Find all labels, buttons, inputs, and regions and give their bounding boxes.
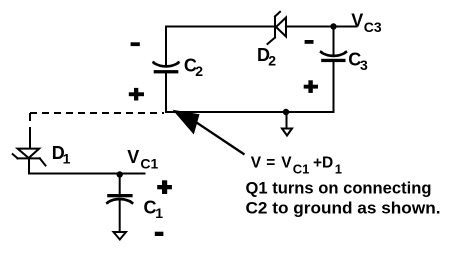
svg-text:3: 3 [360, 57, 368, 73]
svg-text:1: 1 [63, 151, 71, 167]
capacitor C3 [320, 51, 347, 62]
wire right vertical above C3 [333, 27, 335, 56]
ground symbol below bottom wire [282, 129, 292, 136]
svg-text:2: 2 [195, 63, 203, 79]
plus sign C3 [304, 80, 318, 93]
wire horizontal to Vc1 node [29, 173, 145, 175]
node junction dot Vc1 [117, 171, 123, 177]
wire top horizontal right of D2 [286, 26, 334, 28]
diode D1 (zener) [13, 149, 46, 166]
svg-text:V: V [351, 11, 363, 31]
dashed wire horizontal [30, 112, 164, 114]
annotation arrow shaft [197, 123, 245, 155]
wire C1 bottom to ground [119, 200, 121, 232]
svg-text:+D: +D [313, 155, 333, 172]
wire right vertical below C3 [333, 62, 335, 112]
wire top horizontal left of D2 [166, 26, 274, 28]
wire left vertical above C2 [165, 27, 167, 66]
plus sign C2 [129, 88, 144, 101]
dashed wire vertical corner [29, 113, 31, 121]
diode D2 (zener) [268, 12, 287, 44]
annotation arrow head [173, 110, 200, 135]
wire bottom horizontal [166, 111, 334, 113]
svg-text:C2 to ground as shown.: C2 to ground as shown. [246, 199, 441, 217]
ground symbol below C1 [114, 232, 127, 240]
capacitor C1 [106, 194, 133, 204]
svg-text:C1: C1 [140, 155, 158, 171]
minus sign C1 [155, 232, 164, 236]
svg-text:V: V [127, 147, 139, 167]
svg-text:1: 1 [335, 161, 342, 176]
wire D1 anode from dashed corner [29, 128, 31, 148]
node junction dot Vc3 [330, 23, 336, 29]
svg-text:C1: C1 [293, 162, 310, 177]
svg-text:=: = [266, 155, 275, 172]
wire C1 top [119, 174, 121, 195]
svg-text:2: 2 [268, 52, 276, 68]
wire ground stub below bottom wire [286, 112, 288, 129]
svg-text:1: 1 [155, 205, 163, 221]
minus sign C3 [305, 40, 314, 44]
svg-text:C3: C3 [364, 19, 382, 35]
wire D1 cathode down [28, 159, 30, 174]
wire left vertical below C2 [165, 74, 167, 113]
capacitor C2 [152, 62, 179, 74]
node junction dot bottom ground [283, 109, 289, 115]
plus sign C1 [157, 180, 172, 194]
svg-text:V: V [281, 155, 292, 172]
svg-text:V: V [251, 155, 262, 172]
wire stub to Vc3 label [334, 26, 357, 28]
minus sign C2 [131, 42, 140, 46]
svg-text:Q1 turns on connecting: Q1 turns on connecting [246, 179, 432, 197]
